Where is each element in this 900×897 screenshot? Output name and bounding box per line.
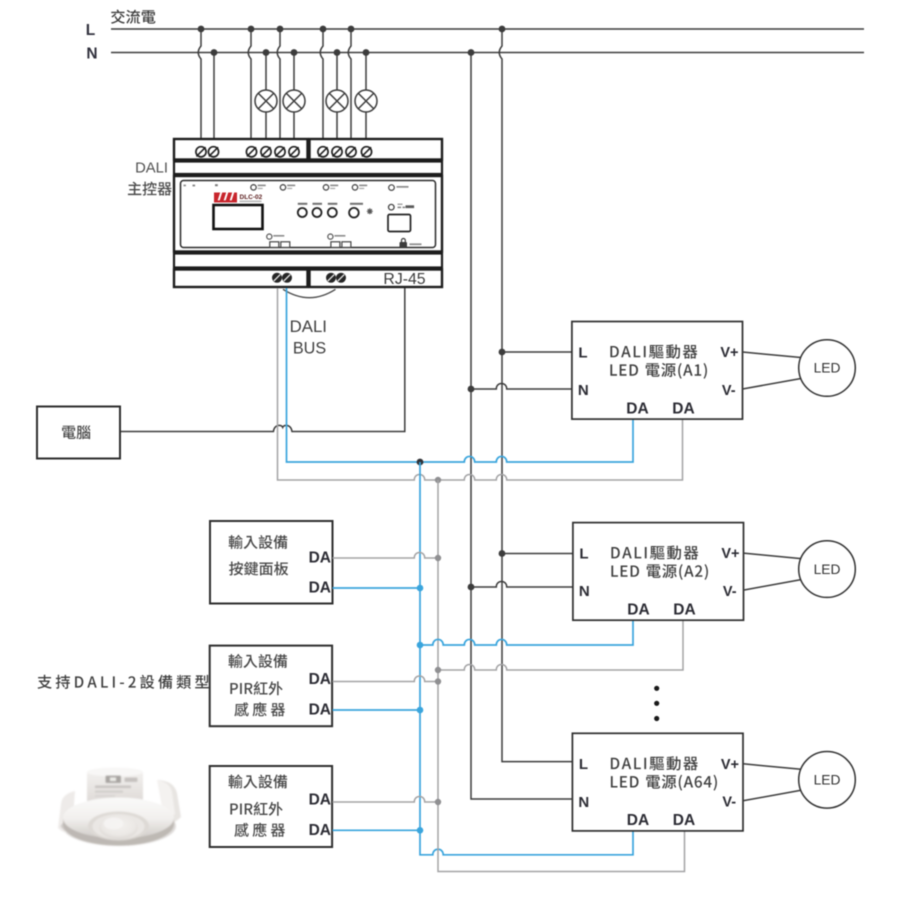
- logo sub line: [240, 201, 262, 203]
- label LED 電源(A64): [611, 775, 717, 791]
- DALI master body: [174, 176, 442, 252]
- wire V- A2: [744, 580, 802, 591]
- LED driver box A1: [572, 322, 743, 420]
- svg-text:L: L: [86, 22, 95, 39]
- computer box: [37, 407, 120, 459]
- wire L to driver A2: [502, 553, 573, 555]
- LED lamp A1: [799, 340, 856, 397]
- lamp 2: [283, 90, 305, 112]
- wire DALI bus blue from master: [287, 288, 634, 462]
- svg-text:DA: DA: [672, 400, 694, 417]
- wire input3 gray: [333, 796, 439, 802]
- junction L drop 5: [348, 26, 355, 33]
- wire L feeder right: [499, 29, 572, 762]
- LED driver box A64: [572, 733, 743, 831]
- junction lamp drop 2: [291, 49, 298, 56]
- junction gray A2: [435, 667, 441, 673]
- wire L drop 1: [198, 29, 201, 147]
- svg-text:V-: V-: [722, 383, 736, 399]
- wire N drop 1: [213, 53, 215, 148]
- marker DALI B: [328, 234, 351, 247]
- label DALI驅動器 A2: [611, 546, 698, 560]
- label DALI驅動器 A64: [611, 756, 698, 770]
- DALI master screw terminals top: [196, 147, 372, 157]
- wire L to driver A1: [502, 351, 572, 353]
- PIR sensor product photo: [58, 768, 181, 847]
- wire L drop 4: [320, 29, 323, 147]
- junction lamp drop 3: [334, 49, 341, 56]
- wire N to driver A1: [471, 383, 572, 389]
- buttons: [298, 208, 337, 217]
- svg-text:N: N: [578, 794, 589, 811]
- icon run indicator: [389, 185, 409, 191]
- svg-text:V+: V+: [721, 757, 739, 773]
- junction L drop 1: [198, 26, 205, 33]
- input box 1 keypad: [210, 521, 333, 604]
- junction L drop 2: [248, 26, 255, 33]
- junction L feeder top: [499, 26, 506, 33]
- junction N-A2: [468, 584, 475, 591]
- label DALI驅動器 A1: [610, 344, 697, 358]
- cable loop under master: [283, 289, 336, 297]
- DALI master lower band: [174, 254, 442, 268]
- svg-text:N: N: [86, 46, 97, 63]
- wire input1 blue: [333, 587, 421, 589]
- wire gray branch A2: [438, 620, 683, 670]
- input box 2 PIR sensor: [210, 646, 332, 727]
- svg-text:LED: LED: [814, 773, 841, 788]
- junction N-A1: [468, 386, 475, 393]
- svg-text:V+: V+: [720, 345, 738, 361]
- lamp 1: [255, 90, 277, 112]
- input box 3 PIR sensor: [210, 766, 332, 847]
- DALI master screw terminals bottom: [272, 273, 346, 283]
- junction input3 gray: [435, 799, 441, 805]
- wire lamp drop 2: [293, 53, 295, 148]
- svg-text:DA: DA: [309, 549, 331, 566]
- wire AC N line: [111, 52, 864, 54]
- button labels: [298, 203, 338, 205]
- svg-text:L: L: [578, 344, 587, 361]
- DALI master top terminal block left: [174, 139, 308, 160]
- junction N feeder top: [468, 49, 475, 56]
- svg-text:V-: V-: [722, 795, 736, 811]
- svg-text:DA: DA: [627, 602, 649, 619]
- svg-text:DA: DA: [309, 822, 331, 839]
- junction L-A1: [499, 349, 506, 356]
- label 主控器: [128, 182, 172, 196]
- svg-text:DALI: DALI: [290, 317, 327, 336]
- junction input3 blue: [417, 827, 424, 834]
- junction N drop 1: [211, 49, 218, 56]
- DALI master bottom terminal block right: [310, 270, 443, 288]
- wire input1 gray: [333, 552, 439, 558]
- ellipsis dots: [654, 686, 659, 721]
- lamp 3: [326, 90, 348, 112]
- label 電腦: [62, 425, 90, 439]
- icon lock: [400, 239, 422, 248]
- svg-text:DA: DA: [627, 812, 649, 829]
- wire V+ A64: [743, 764, 801, 770]
- svg-text:N: N: [578, 382, 589, 399]
- wire V+ A1: [743, 352, 802, 358]
- label AC mains 交流電: [111, 10, 155, 24]
- DALI master top terminal block right: [310, 139, 443, 160]
- svg-text:DA: DA: [309, 792, 331, 809]
- svg-text:LED: LED: [814, 562, 841, 577]
- DALI master upper band: [174, 162, 442, 175]
- wire input2 blue: [333, 709, 421, 711]
- svg-text:DA: DA: [673, 812, 695, 829]
- svg-text:DA: DA: [309, 701, 331, 718]
- panel top markers: [251, 185, 367, 190]
- panel small dots: [184, 184, 218, 186]
- junction lamp drop 1: [263, 49, 270, 56]
- wire V+ A2: [744, 553, 802, 559]
- label 感應器 3: [234, 823, 284, 837]
- junction input2 blue: [417, 707, 424, 714]
- logo MW red: [214, 193, 237, 203]
- svg-text:LED: LED: [814, 361, 841, 376]
- LCD display: [214, 205, 263, 229]
- wire N to driver A2: [471, 581, 573, 587]
- icon aux: [389, 204, 415, 210]
- wire blue trunk: [420, 462, 633, 855]
- svg-text:DALI: DALI: [135, 161, 168, 177]
- LED lamp A64: [799, 752, 856, 809]
- DALI master bottom terminal block left: [174, 270, 308, 288]
- svg-text:RJ-45: RJ-45: [383, 271, 425, 288]
- rotary knob: [349, 203, 373, 218]
- junction L drop 4: [320, 26, 327, 33]
- wire DALI bus gray from master: [278, 288, 683, 480]
- junction gray bus tap: [435, 477, 441, 483]
- RJ45 jack: [388, 215, 411, 232]
- svg-text:BUS: BUS: [293, 339, 326, 357]
- wire gray trunk: [438, 480, 685, 872]
- wire input3 blue: [333, 829, 421, 831]
- label PIR紅外 3: [230, 802, 282, 816]
- label LED 電源(A2): [611, 564, 708, 580]
- junction blue bus tap: [417, 459, 424, 466]
- marker DALI A: [267, 234, 290, 247]
- LED driver box A2: [573, 523, 744, 621]
- svg-text:N: N: [579, 583, 590, 600]
- wire lamp drop 1: [265, 53, 267, 148]
- junction L-A2: [499, 550, 506, 557]
- junction input1 gray: [435, 555, 441, 561]
- label 輸入設備 2: [228, 654, 287, 668]
- svg-text:DA: DA: [309, 580, 331, 597]
- wire V- A64: [743, 790, 801, 801]
- label 按鍵面板: [229, 561, 288, 575]
- wire input2 gray: [333, 676, 439, 682]
- LED lamp A2: [799, 541, 856, 598]
- wire V- A1: [743, 379, 802, 390]
- label 感應器 2: [234, 702, 284, 716]
- label LED 電源(A1): [610, 363, 707, 379]
- junction lamp drop 4: [363, 49, 370, 56]
- wire L drop 3: [277, 29, 280, 147]
- svg-text:V+: V+: [721, 546, 739, 562]
- junction blue A2: [417, 642, 424, 649]
- label 支持DALI-2設備類型: [37, 675, 208, 689]
- svg-text:L: L: [579, 756, 588, 773]
- wire blue branch A2: [420, 620, 633, 645]
- junction input2 gray: [435, 678, 441, 684]
- DALI master front panel: [181, 181, 436, 248]
- svg-text:V-: V-: [723, 584, 737, 600]
- wire lamp drop 4: [365, 53, 367, 148]
- wire L drop 2: [248, 29, 251, 147]
- lamp 4: [355, 90, 377, 112]
- svg-text:DLC-02: DLC-02: [240, 194, 263, 201]
- junction L drop 3: [277, 26, 284, 33]
- svg-text:DA: DA: [673, 602, 695, 619]
- wire L drop 5: [348, 29, 351, 147]
- wire ethernet RJ45 to computer: [121, 288, 405, 432]
- label 輸入設備 3: [228, 774, 287, 788]
- wire AC L line: [111, 28, 864, 30]
- svg-text:L: L: [579, 545, 588, 562]
- svg-text:DA: DA: [626, 400, 648, 417]
- wire N feeder right: [471, 53, 572, 800]
- label 輸入設備 1: [229, 535, 288, 549]
- label PIR紅外 2: [230, 681, 282, 695]
- wire lamp drop 3: [336, 53, 338, 148]
- svg-text:DA: DA: [309, 671, 331, 688]
- junction input1 blue: [417, 585, 424, 592]
